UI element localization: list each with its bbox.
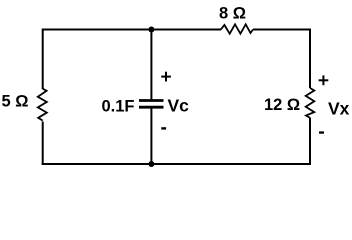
svg-text:Vx: Vx: [328, 99, 350, 119]
polarity plus (Vx): [319, 75, 329, 85]
wire bottom rail: [42, 163, 311, 165]
resistor 12 Ohm (right vertical zigzag): [306, 88, 315, 118]
resistor 8 Ohm (horizontal zigzag): [221, 24, 253, 33]
wire right branch upper: [309, 29, 311, 89]
svg-text:8 Ω: 8 Ω: [219, 5, 246, 23]
wire middle branch lower (from capacitor): [150, 109, 152, 165]
junction node bottom (middle/bottom rail): [148, 161, 154, 167]
wire top rail right segment: [253, 29, 311, 31]
svg-text:Vc: Vc: [168, 96, 190, 116]
wire top rail left segment: [43, 29, 221, 31]
polarity minus (Vx): [319, 131, 324, 133]
wire middle branch upper (to capacitor): [150, 30, 152, 100]
wire left branch upper: [42, 29, 44, 90]
svg-text:12 Ω: 12 Ω: [264, 96, 300, 114]
polarity minus (capacitor): [161, 127, 166, 129]
resistor 5 Ohm (left vertical zigzag): [38, 89, 47, 121]
wire right branch lower: [309, 118, 311, 165]
capacitor 0.1F bottom plate: [139, 106, 164, 109]
svg-text:0.1F: 0.1F: [102, 97, 135, 115]
junction node top (middle/top rail): [148, 27, 154, 33]
wire left branch lower: [42, 122, 44, 166]
svg-text:5 Ω: 5 Ω: [2, 93, 29, 111]
capacitor 0.1F top plate: [139, 99, 164, 102]
polarity plus (capacitor): [161, 72, 171, 82]
